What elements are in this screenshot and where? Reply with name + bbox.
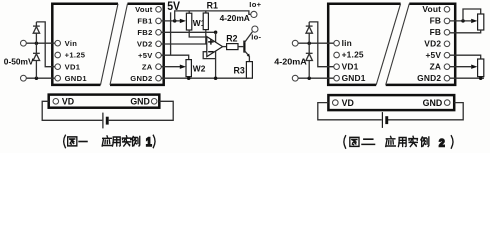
wire ZA to W2 wiper [161, 66, 180, 68]
glyph yong (use) (caption 2) [398, 138, 406, 147]
wire FB2 to feedback node [161, 31, 215, 33]
wire Vin input [26, 42, 55, 44]
svg-text:Vout: Vout [135, 5, 153, 14]
svg-text:0-50mV: 0-50mV [4, 56, 34, 66]
terminal input - (circuit 2) [292, 75, 298, 81]
pin VD (circuit 2) [333, 100, 339, 106]
module U3 isolation diagonal left [376, 4, 400, 85]
module U3 isolation diagonal right [386, 4, 410, 85]
wire emitter to R3 [248, 56, 250, 61]
glyph li (example) [132, 137, 140, 147]
pin GND (circuit 1) [151, 99, 157, 105]
wire W2 bottom stub [188, 77, 190, 79]
pin GND1 (circuit 2) [334, 75, 340, 81]
node junction W2 bottom [187, 76, 191, 80]
svg-text:+5V: +5V [425, 50, 441, 60]
svg-text:2: 2 [439, 137, 445, 149]
wire P2 bottom stub [480, 77, 482, 79]
glyph shi (real) (caption 2) [409, 136, 418, 146]
diode D4 (lower protection diode) [308, 43, 310, 53]
wire Iin input [298, 42, 334, 44]
pin VD1 [55, 64, 61, 70]
wire 5V rail [170, 12, 172, 55]
terminal input - [21, 75, 27, 81]
glyph paren open (caption 2) [344, 136, 346, 148]
pin +5V [156, 52, 162, 58]
glyph shi (real) [122, 136, 131, 146]
wire battery loop right (circuit 1) [109, 101, 174, 120]
pin VD (circuit 1) [53, 99, 59, 105]
svg-text:4-20mA: 4-20mA [220, 13, 250, 23]
battery B1 long plate [102, 113, 104, 129]
pin +5V (circuit 2) [444, 52, 450, 58]
arrow P1 wiper [471, 19, 477, 23]
wire GND1 input (circuit 2) [298, 77, 334, 79]
potentiometer P1 [478, 14, 484, 30]
module U1 body left piece [52, 4, 118, 85]
wire battery loop left (circuit 2) [318, 103, 382, 120]
svg-text:R3: R3 [233, 66, 244, 76]
glyph paren close [153, 135, 155, 147]
glyph ying (apply) (caption 2) [386, 136, 396, 146]
wire FB1 to W1 wiper [161, 20, 180, 22]
potentiometer P2 [478, 59, 484, 77]
svg-text:GND: GND [423, 98, 443, 108]
op-amp - symbol [209, 51, 213, 53]
resistor R1 [203, 13, 208, 30]
pin FB1 [156, 18, 162, 24]
node junction P2 bottom [479, 76, 483, 80]
pin Vout (circuit 2) [444, 7, 450, 13]
arrow W1 wiper [180, 19, 186, 23]
svg-text:VD1: VD1 [65, 62, 81, 71]
svg-text:GND1: GND1 [342, 73, 366, 83]
node junction FB1 [173, 19, 177, 23]
transistor Q1 base bar [243, 41, 245, 53]
caption (figure 2 application example 2) [344, 136, 453, 150]
pin GND1 [55, 75, 61, 81]
diode D2 (lower protection diode) [35, 43, 37, 53]
module U3 body right piece [386, 4, 456, 85]
pin ZA [156, 64, 162, 70]
module U1 body right piece [110, 4, 164, 85]
wire GND2 rail [161, 77, 249, 79]
wire battery loop right (circuit 2) [387, 103, 463, 120]
node junction on Iin wire [307, 41, 311, 45]
glyph paren open [64, 135, 66, 147]
op-amp + symbol [209, 40, 213, 44]
diode D1 (upper protection diode) [35, 22, 37, 26]
svg-text:GND2: GND2 [417, 73, 441, 83]
glyph tu (picture) (caption 2) [350, 137, 359, 146]
svg-text:GND: GND [130, 97, 150, 107]
wire W1 top bracket and R1 top rail to Io+ [175, 11, 251, 21]
svg-text:VD1: VD1 [342, 61, 359, 71]
arrow P2 wiper [471, 65, 477, 69]
wire GND1 input [26, 77, 55, 79]
module U3 body left piece [328, 4, 400, 85]
power module box VD GND (circuit 2) [328, 95, 454, 110]
svg-text:R2: R2 [226, 33, 237, 43]
pin ZA (circuit 2) [444, 64, 450, 70]
svg-text:GND2: GND2 [130, 74, 152, 83]
svg-text:FB: FB [430, 16, 442, 26]
battery B2 long plate [381, 112, 383, 128]
wire R1 bottom to noninverting node [205, 30, 207, 44]
pin FB lower (circuit 2) [444, 30, 450, 36]
wire P1 bottom to FB [450, 30, 481, 33]
pin Vin [55, 40, 61, 46]
potentiometer W1 [186, 13, 191, 30]
glyph tu (picture) [68, 137, 77, 146]
pin +1.25 (circuit 2) [334, 52, 340, 58]
glyph yi (one) [79, 141, 87, 143]
svg-text:R1: R1 [207, 1, 218, 11]
battery B1 short plate [106, 117, 109, 125]
svg-text:Io-: Io- [251, 32, 261, 41]
arrow W2 wiper [180, 65, 186, 69]
wire R1 top stub [205, 11, 207, 13]
svg-text:Vin: Vin [65, 39, 78, 48]
terminal input + (circuit 2) [292, 40, 298, 46]
wire top bracket to VD1 branch (circuit 2) [309, 22, 334, 67]
pin VD2 (circuit 2) [444, 41, 450, 47]
resistor R3 [246, 62, 252, 79]
op-amp U2 [207, 37, 223, 57]
svg-text:FB2: FB2 [137, 28, 152, 37]
pin GND2 (circuit 2) [444, 75, 450, 81]
module U1 isolation diagonal right [110, 4, 128, 85]
svg-text:VD2: VD2 [424, 38, 441, 48]
node junction FB (circuit 2) [461, 19, 465, 23]
svg-text:1: 1 [146, 137, 152, 150]
transistor Q1 emitter with arrow [244, 51, 249, 56]
caption (figure 1 application example 1) [64, 135, 155, 149]
pin +1.25 [55, 52, 61, 58]
svg-text:ZA: ZA [142, 62, 153, 71]
wire W1 bottom leg [189, 30, 206, 37]
svg-text:W2: W2 [193, 64, 206, 74]
transistor Q1 collector [244, 32, 252, 43]
pin GND (circuit 2) [444, 100, 450, 106]
svg-text:Iin: Iin [342, 38, 352, 48]
svg-text:ZA: ZA [430, 61, 442, 71]
pin VD1 (circuit 2) [334, 64, 340, 70]
wire +5V to P2 top [450, 55, 481, 59]
glyph paren close (caption 2) [451, 136, 453, 148]
battery B2 short plate [385, 116, 388, 124]
glyph li (example) (caption 2) [421, 137, 429, 147]
resistor R2 [227, 44, 238, 50]
svg-text:FB1: FB1 [137, 17, 153, 26]
wire P1 top bracket [463, 9, 481, 21]
glyph ying (apply) [102, 136, 112, 146]
svg-text:VD: VD [342, 98, 354, 108]
wire GND2 rail (circuit 2) [450, 77, 484, 79]
wire ZA to P2 wiper [450, 66, 471, 68]
pin GND2 [156, 75, 162, 81]
node junction feedback top [214, 31, 218, 35]
terminal Io- [252, 26, 258, 32]
svg-text:FB: FB [430, 27, 442, 37]
terminal Io+ [251, 11, 257, 17]
wire W1 top stub [188, 11, 190, 13]
svg-text:+1.25: +1.25 [342, 50, 364, 60]
wire top bracket to VD1 branch [36, 22, 55, 67]
svg-text:VD: VD [62, 97, 74, 107]
glyph er (two) [362, 139, 375, 144]
power module box VD GND (circuit 1) [49, 95, 160, 108]
pin FB2 [156, 30, 162, 36]
node junction on Vin wire [35, 41, 39, 45]
svg-text:GND1: GND1 [65, 74, 88, 83]
svg-text:Io+: Io+ [249, 0, 261, 9]
pin VD2 [156, 41, 162, 47]
wire FB to P1 wiper [450, 20, 471, 22]
svg-text:+5V: +5V [138, 51, 153, 60]
node junction on GND1 wire [35, 76, 39, 80]
wire VD2 to op-amp + input [161, 43, 207, 45]
svg-text:VD2: VD2 [137, 39, 153, 48]
potentiometer W2 [186, 60, 191, 77]
pin Iin [334, 40, 340, 46]
svg-text:Vout: Vout [422, 4, 441, 14]
wire feedback vertical [215, 32, 217, 78]
wire op-amp output [223, 46, 227, 48]
svg-text:4-20mA: 4-20mA [274, 56, 307, 66]
pin Vout [156, 7, 162, 13]
diode D3 (upper protection diode) [308, 22, 310, 26]
wire R2 to base [238, 46, 243, 48]
svg-text:+1.25: +1.25 [65, 51, 86, 60]
wire inverting input hook [203, 52, 215, 59]
module U1 isolation diagonal left [101, 4, 119, 85]
node junction feedback bottom [214, 76, 218, 80]
terminal input + [21, 40, 27, 46]
glyph yong (use) [113, 137, 121, 146]
pin FB upper (circuit 2) [444, 18, 450, 24]
wire battery loop left (circuit 1) [42, 101, 102, 120]
wire +5V to W2 top [161, 55, 188, 59]
node junction on GND1 wire (circuit 2) [307, 76, 311, 80]
